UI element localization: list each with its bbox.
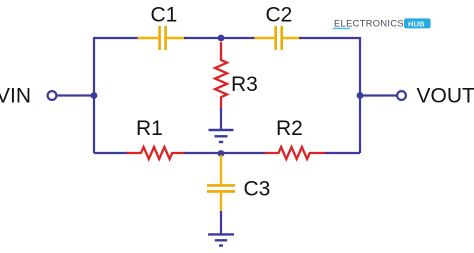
capacitor C2: [255, 26, 302, 50]
wire right vertical: [359, 37, 361, 153]
svg-text:ELECTRONICS: ELECTRONICS: [334, 18, 404, 28]
svg-text:VIN: VIN: [0, 85, 31, 108]
node VOUT junction: [357, 92, 364, 99]
resistor R2: [265, 147, 327, 159]
svg-text:VOUT: VOUT: [417, 85, 474, 108]
wire top rail middle segment: [184, 37, 256, 39]
svg-text:HUB: HUB: [408, 19, 425, 28]
resistor R1: [127, 147, 186, 159]
resistor R3: [215, 42, 227, 110]
wire bottom rail middle segment: [184, 152, 266, 154]
node bottom-center junction: [218, 150, 225, 157]
node VIN junction: [91, 92, 98, 99]
svg-text:R2: R2: [276, 117, 303, 140]
capacitor C3: [207, 155, 235, 212]
wire left vertical: [93, 37, 95, 153]
ground (bottom, below C3): [208, 234, 234, 245]
wire C3 to ground: [220, 211, 222, 234]
wire VIN to left rail: [57, 94, 94, 96]
svg-text:C3: C3: [244, 178, 271, 201]
terminal VOUT: [397, 91, 406, 100]
wire top rail left segment: [94, 37, 140, 39]
wire R3 to ground: [220, 108, 222, 130]
wire VOUT lead: [360, 94, 397, 96]
svg-text:C2: C2: [266, 4, 293, 27]
node top-center junction: [218, 35, 225, 42]
wire bottom rail right segment: [325, 152, 360, 154]
svg-text:R1: R1: [136, 117, 163, 140]
wire top rail right segment: [299, 37, 360, 39]
terminal VIN: [48, 91, 57, 100]
logo Electronics Hub: [333, 18, 431, 29]
ground (middle, below R3): [209, 130, 234, 142]
capacitor C1: [138, 26, 187, 50]
wire bottom rail left segment: [94, 152, 128, 154]
svg-text:C1: C1: [151, 4, 178, 27]
svg-text:R3: R3: [231, 73, 258, 96]
